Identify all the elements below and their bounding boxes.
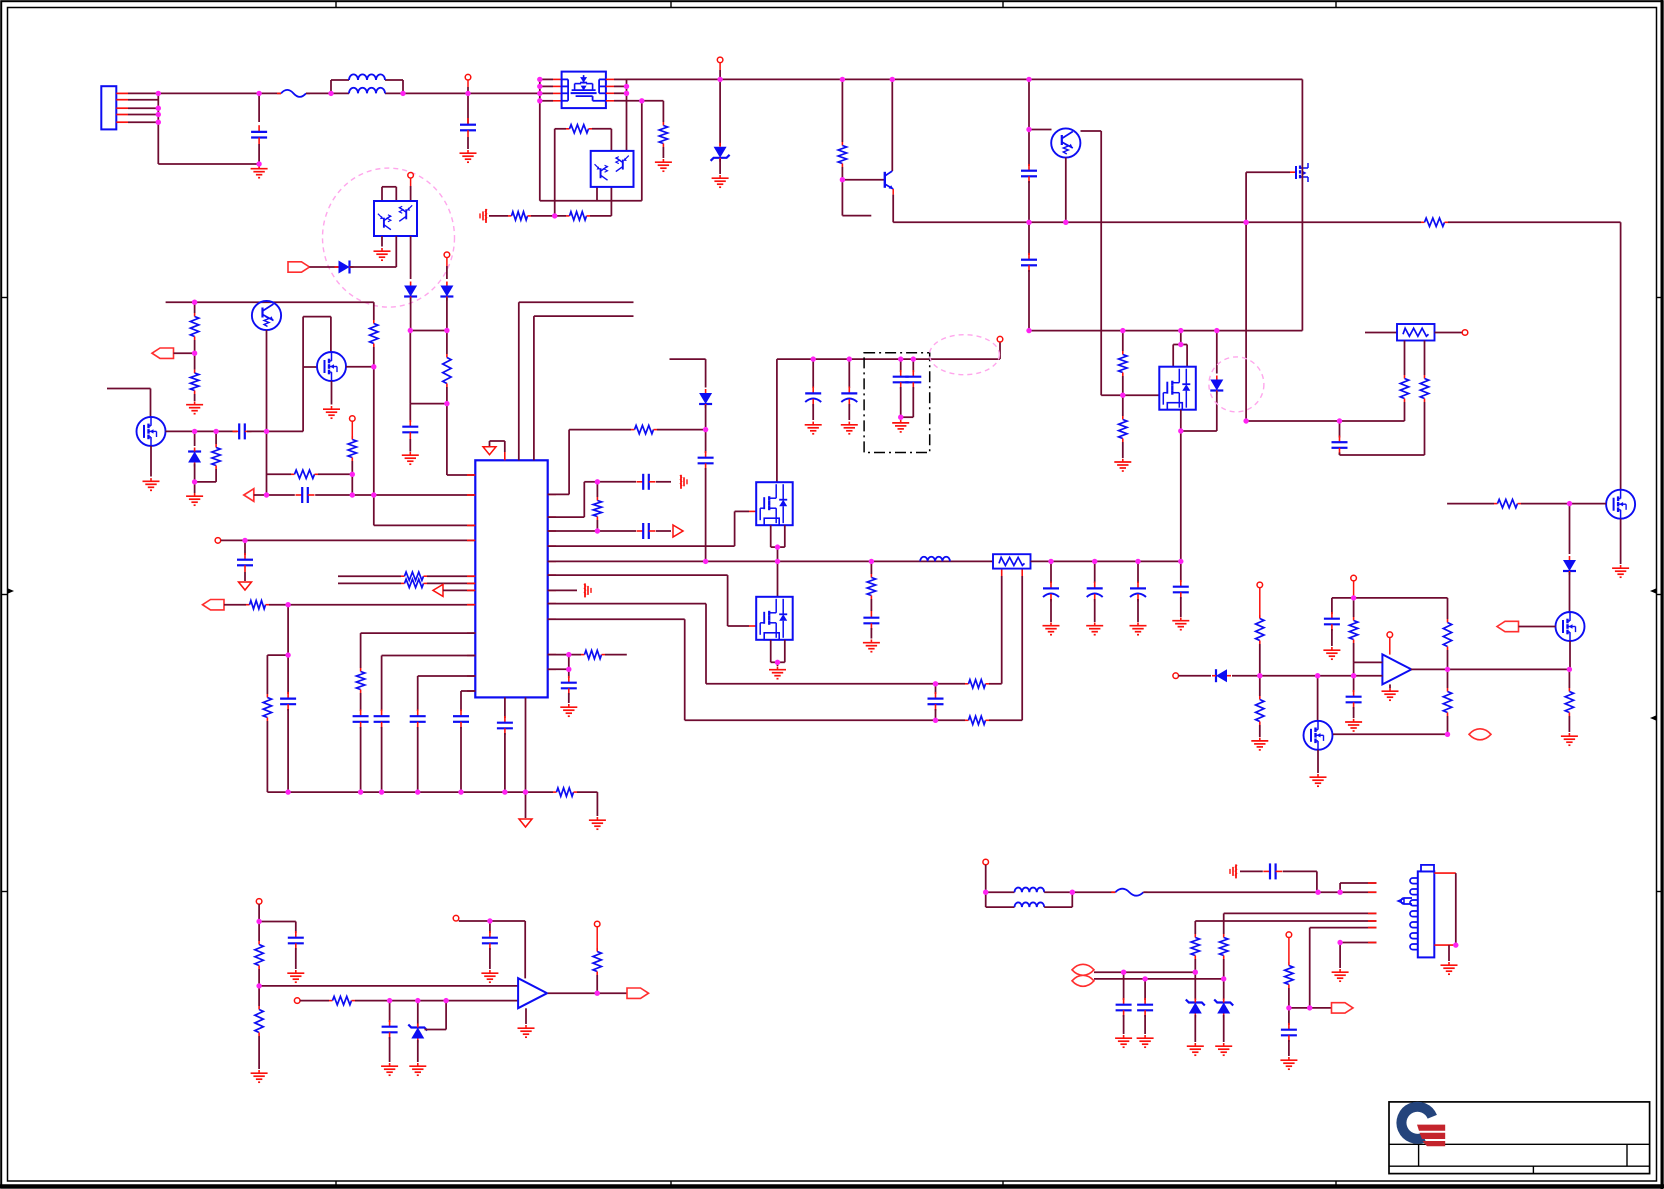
resistor R8 — [1421, 221, 1425, 223]
wire — [267, 473, 292, 475]
capacitor C11 — [705, 430, 707, 453]
MOSFET Q11 — [1556, 612, 1585, 641]
net flag — [152, 348, 174, 358]
bottom bus wires — [267, 791, 553, 793]
capacitor C5 — [409, 404, 411, 422]
pink circle — [1209, 357, 1264, 412]
MOSFET module Q6 — [777, 561, 779, 596]
stub to conn — [1340, 882, 1376, 884]
dashed module box — [864, 353, 930, 453]
wire AC line — [158, 92, 281, 94]
net flag gate — [1497, 621, 1519, 631]
wire — [403, 92, 540, 94]
stub lines — [338, 575, 401, 577]
relay/MOSFET module U1 — [539, 79, 541, 200]
power in — [983, 859, 989, 865]
zener D8 branch — [670, 358, 706, 360]
resistor R17 — [266, 655, 268, 694]
resistor R12 — [194, 370, 196, 374]
power net — [256, 899, 262, 905]
diode D3 — [339, 261, 350, 274]
IC bottom pins — [504, 697, 506, 718]
junction dots — [156, 91, 161, 96]
feedback resistor R32 — [1447, 598, 1449, 619]
resistor R10 — [446, 331, 448, 355]
ground — [900, 420, 902, 423]
ground — [258, 166, 260, 169]
arrow flag — [673, 525, 683, 537]
op-amp U6 — [1389, 638, 1391, 655]
fuse F1 — [281, 90, 306, 97]
capacitor C26 — [1331, 598, 1333, 614]
capacitor C24 — [1339, 421, 1341, 438]
capacitor C29 — [389, 1001, 391, 1022]
resistor R15 — [291, 473, 295, 475]
wire — [410, 236, 412, 279]
ground — [568, 704, 570, 707]
ground — [1122, 459, 1124, 462]
wire vcc line — [215, 538, 221, 544]
output wire — [1411, 668, 1570, 670]
ground — [194, 493, 196, 496]
capacitor C1 — [258, 93, 260, 122]
op-amp ground — [525, 1008, 527, 1024]
non-inverting network — [1354, 661, 1383, 663]
IC right stub pins red — [548, 493, 556, 495]
capacitor C16 — [900, 359, 902, 372]
chassis ground pin590 — [548, 589, 577, 591]
capacitor C6 — [233, 430, 240, 432]
filter caps — [1123, 972, 1125, 1000]
common-mode choke L1 — [330, 80, 332, 93]
ground — [150, 478, 152, 481]
ground — [389, 1063, 391, 1066]
oval flag — [1469, 729, 1491, 740]
wire gate line — [195, 430, 237, 432]
ground — [596, 817, 598, 820]
connector J2 — [1418, 871, 1435, 957]
ground — [1353, 719, 1355, 722]
pin 676 cap — [418, 675, 476, 677]
wire — [641, 101, 643, 201]
red tips — [1368, 882, 1377, 884]
chassis ground — [485, 209, 487, 223]
output — [548, 992, 598, 994]
connector J1 — [101, 86, 116, 129]
ground — [1317, 774, 1319, 777]
op-amp U7 — [518, 978, 547, 1008]
logo — [1401, 1107, 1432, 1139]
resistor R36 — [258, 986, 260, 1006]
MOSFET Q10 — [1620, 489, 1622, 490]
ground — [467, 150, 469, 153]
pin 531 net — [548, 530, 636, 532]
flag — [1332, 1003, 1354, 1013]
ground — [1259, 738, 1261, 741]
ground — [258, 1070, 260, 1073]
zener D4 — [404, 286, 417, 297]
wire — [1246, 420, 1404, 422]
optocoupler U3 — [381, 187, 383, 201]
net flag FB — [203, 600, 225, 610]
resistor R14 — [350, 416, 356, 422]
MOSFET module Q5 — [776, 359, 778, 482]
choke L3 — [986, 891, 1015, 893]
power port — [465, 74, 471, 80]
wire bias rail — [166, 301, 374, 303]
diode D10 — [1563, 560, 1576, 571]
diode D9 — [1216, 331, 1218, 374]
resistor R6 — [566, 215, 570, 217]
current sense box RS1 — [993, 554, 1031, 568]
MOSFET module Q9 — [1172, 345, 1174, 367]
pin 655 cap — [382, 655, 476, 657]
pin 494 loop — [548, 493, 569, 495]
capacitor C8 — [244, 553, 246, 560]
wire sense line — [893, 221, 1421, 223]
wire main HV rail — [627, 78, 1303, 80]
ground — [295, 970, 297, 973]
zener D6 — [444, 252, 450, 258]
pin 560 main bus — [548, 560, 993, 562]
pin 669 cap — [548, 668, 569, 670]
resistor R4 — [566, 128, 570, 130]
transistor Q2 — [252, 301, 281, 330]
resistor R35 — [258, 922, 260, 942]
pin 691 cap — [461, 690, 475, 692]
pull-up R38 — [594, 921, 600, 927]
ground — [489, 970, 491, 973]
flag arrow — [433, 584, 443, 596]
capacitor C7 — [296, 494, 303, 496]
resistor R11 — [194, 302, 196, 313]
wire snubber rail — [777, 358, 1000, 360]
fuse F2 — [1072, 891, 1115, 893]
resistor R3 — [662, 101, 664, 122]
capacitor C23 — [1028, 222, 1030, 255]
capacitor C21 — [1180, 561, 1182, 582]
MOSFET Q8 — [1246, 171, 1290, 173]
optocoupler U2 — [591, 151, 634, 187]
pin 517 net — [548, 516, 585, 518]
capacitor C2 — [467, 93, 469, 125]
resistor R23 — [965, 719, 969, 721]
capacitor C30 — [489, 921, 491, 933]
ground — [194, 402, 196, 405]
resistor R5 — [508, 215, 512, 217]
conn gnd stub — [1340, 942, 1376, 944]
pin 619 kelvin- — [548, 618, 685, 620]
supply net — [453, 915, 459, 921]
capacitor C22 — [1028, 130, 1030, 167]
cap C27 — [1180, 560, 1182, 562]
title block — [1389, 1102, 1650, 1174]
resistor R16 — [246, 604, 250, 606]
conn right loop — [1434, 872, 1456, 874]
gate network — [1447, 503, 1494, 505]
capacitor C9 — [287, 655, 289, 694]
ground — [719, 175, 721, 178]
capacitor C13 — [935, 684, 937, 694]
power arrow — [239, 582, 252, 590]
ground — [331, 406, 333, 409]
sense box RS2 — [1365, 332, 1397, 334]
twisted pair — [1072, 964, 1094, 975]
bias resistors — [1195, 920, 1376, 922]
ground — [409, 452, 411, 455]
resistor R27 — [1404, 341, 1406, 376]
chassis ground — [680, 475, 682, 489]
reference net — [1351, 575, 1357, 581]
inductor L2 — [992, 560, 994, 562]
IC U5 PWM controller — [475, 460, 547, 697]
ground — [777, 667, 779, 670]
transistor Q7 — [1029, 129, 1052, 131]
chassis cap — [1235, 864, 1237, 878]
capacitor C14 pol — [812, 359, 814, 388]
capacitor C12 — [637, 481, 644, 483]
pin 575 gate drive 2 — [548, 574, 728, 576]
resistor R34 — [1568, 669, 1570, 688]
resistor R37 — [329, 1000, 333, 1002]
MOSFET Q3 — [107, 388, 151, 390]
resistor R21 — [596, 482, 598, 497]
wire — [410, 330, 447, 332]
resistor R30 — [1259, 676, 1261, 696]
vertical divider net — [373, 302, 375, 320]
resistor R13 — [215, 431, 217, 444]
resistor chain R25 — [1122, 331, 1124, 351]
capacitor C15 pol — [848, 359, 850, 388]
pullup net — [1286, 932, 1292, 938]
cap C33 — [1288, 1008, 1290, 1025]
capacitor C28 — [295, 922, 297, 934]
zener D2 — [717, 57, 723, 63]
resistor R33 — [1447, 669, 1449, 688]
resistor divider R29 — [1257, 582, 1263, 588]
input net — [294, 998, 300, 1004]
inverting input net — [1173, 673, 1179, 679]
ground — [1620, 565, 1622, 568]
pin 654 stub — [548, 654, 581, 656]
wire aux rail — [1029, 330, 1302, 332]
wires to transformer — [518, 302, 520, 460]
flag out — [627, 988, 649, 998]
MOSFET Q12 — [1317, 676, 1319, 721]
pin 633 RC — [361, 632, 476, 634]
bulk capacitors — [1050, 561, 1052, 583]
wire — [409, 331, 411, 404]
MOSFET Q4 — [317, 352, 346, 381]
IC left stub pins red — [467, 474, 475, 476]
resistor R19 — [553, 791, 557, 793]
diode D7 — [194, 431, 196, 446]
resistor R22 — [965, 683, 969, 685]
bus RC — [870, 561, 872, 574]
wire comp net — [244, 489, 254, 502]
resistor R28 — [1424, 341, 1426, 376]
ground — [1331, 647, 1333, 650]
resistor R31 — [1353, 617, 1355, 621]
pink ellipse — [929, 335, 999, 375]
wire bus from J1 — [157, 93, 159, 164]
resistor R7 — [841, 79, 843, 142]
ground — [870, 640, 872, 643]
resistor R26 — [1122, 416, 1124, 420]
zener D11 — [417, 1001, 419, 1026]
pin 546 gate drive — [548, 545, 735, 547]
tvs zeners — [1194, 972, 1196, 1000]
pin 603 kelvin+ — [548, 603, 706, 605]
capacitor C17 — [912, 359, 914, 372]
resistor R20 — [631, 429, 635, 431]
transistor Q1 — [891, 79, 893, 171]
wire HV node — [1028, 79, 1030, 129]
power arrow on top — [504, 452, 506, 460]
ground — [1568, 733, 1570, 736]
ground — [417, 1063, 419, 1066]
net flag VCC — [288, 262, 310, 272]
wire to +in — [259, 985, 518, 987]
ground — [381, 248, 383, 251]
ground — [662, 159, 664, 162]
feedback group circle — [323, 168, 455, 307]
